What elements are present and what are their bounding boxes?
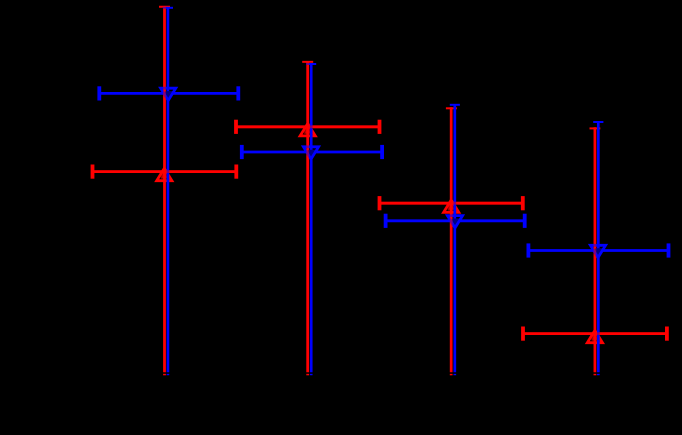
red hbar overlay group 1 [93, 170, 237, 173]
red right cap hbar 3 [521, 196, 525, 210]
red vline overlay group 4 [594, 127, 597, 375]
red marker inner fill group 4 [592, 330, 597, 340]
blue vertical error bar group 4 [597, 121, 600, 375]
blue left cap hbar 2 [240, 145, 244, 159]
red hbar overlay group 2 [236, 125, 380, 128]
red right cap hbar 1 [234, 165, 238, 179]
blue vertical error bar group 3 [453, 104, 456, 375]
blue horizontal error bar group 2 [242, 151, 382, 154]
blue top cap group 1 [163, 7, 173, 9]
blue right cap hbar 3 [523, 214, 527, 228]
red top cap group 1 [159, 6, 170, 8]
red vline overlay group 2 [306, 61, 309, 375]
red left cap hbar 2 [234, 120, 238, 134]
red up-triangle outline group 1 [157, 168, 172, 180]
blue down-triangle outline group 3 [447, 216, 462, 228]
red up-triangle outline group 3 [444, 200, 459, 212]
red right cap hbar 2 [378, 120, 382, 134]
blue horizontal error bar group 3 [386, 219, 525, 222]
blue right cap hbar 1 [236, 86, 240, 100]
blue triangle markers [166, 92, 602, 256]
black bottom spine over error bars [0, 372, 682, 374]
red vertical error bar group 2 [306, 61, 309, 375]
red vertical error bar group 3 [450, 107, 453, 375]
red vline overlay group 3 [450, 107, 453, 375]
red hbar overlay group 3 [380, 202, 523, 205]
red top cap group 4 [590, 127, 601, 129]
red left cap hbar 1 [91, 165, 95, 179]
blue down-triangle outline group 4 [590, 245, 605, 257]
blue marker inner fill group 4 [596, 249, 602, 256]
red horizontal error bar group 3 [380, 202, 523, 205]
red top cap group 3 [446, 107, 457, 109]
red horizontal error bar group 4 [523, 332, 667, 335]
blue top cap group 4 [593, 121, 603, 123]
blue marker inner fill group 2 [309, 151, 315, 158]
blue series error bars [99, 7, 668, 375]
blue vertical error bar group 1 [167, 7, 170, 375]
red up-triangle outline group 4 [587, 330, 602, 342]
red up-triangle outline group 2 [300, 124, 315, 136]
red left cap hbar 3 [378, 196, 382, 210]
blue horizontal error bar group 4 [528, 249, 668, 252]
red left cap hbar 4 [521, 327, 525, 341]
blue left cap hbar 4 [527, 243, 531, 257]
red top cap group 2 [302, 61, 313, 63]
blue right cap hbar 4 [667, 243, 671, 257]
blue left cap hbar 1 [97, 86, 101, 100]
blue left cap hbar 3 [384, 214, 388, 228]
red vertical error bar group 1 [163, 6, 166, 375]
blue right cap hbar 2 [380, 145, 384, 159]
red overlay re-draw (semi-transparent) [93, 6, 667, 375]
red horizontal error bar group 1 [93, 170, 237, 173]
blue top cap group 2 [306, 63, 316, 65]
blue down-triangle outline group 1 [161, 88, 176, 100]
red marker inner fill group 2 [305, 123, 310, 133]
red right cap hbar 4 [665, 327, 669, 341]
red horizontal error bar group 2 [236, 125, 380, 128]
blue vertical error bar group 2 [310, 63, 313, 375]
red triangle markers [162, 123, 598, 340]
blue marker inner fill group 3 [453, 220, 459, 227]
blue top cap group 3 [450, 104, 460, 106]
blue marker inner fill group 1 [166, 92, 172, 99]
blue down-triangle outline group 2 [303, 147, 318, 159]
red vline overlay group 1 [163, 6, 166, 375]
blue horizontal error bar group 1 [99, 92, 238, 95]
red series error bars [93, 6, 667, 375]
red marker inner fill group 3 [449, 200, 454, 210]
red marker inner fill group 1 [162, 168, 167, 178]
red hbar overlay group 4 [523, 332, 667, 335]
red vertical error bar group 4 [594, 127, 597, 375]
